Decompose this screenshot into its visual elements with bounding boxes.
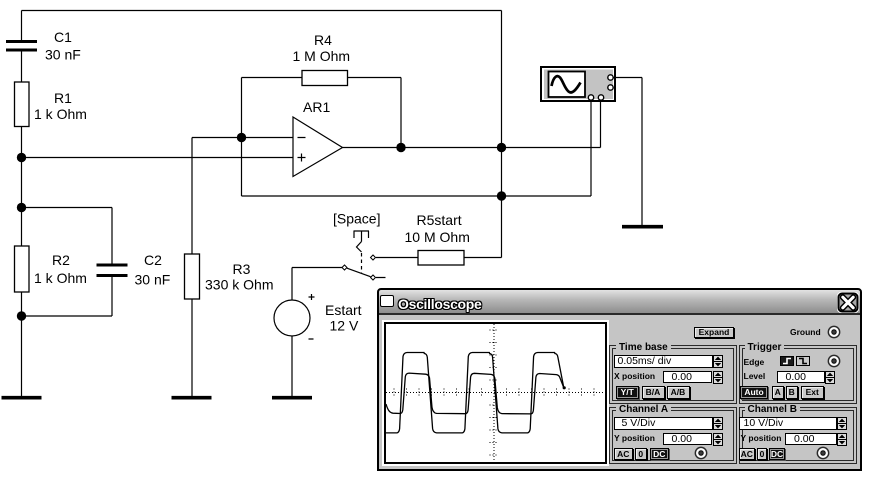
svg-text:R1: R1 [54, 90, 72, 106]
svg-text:AR1: AR1 [303, 99, 330, 115]
svg-text:10 M Ohm: 10 M Ohm [405, 229, 470, 245]
svg-text:1 k Ohm: 1 k Ohm [34, 106, 87, 122]
svg-text:R4: R4 [314, 32, 332, 48]
svg-text:R5start: R5start [417, 212, 462, 228]
svg-text:12 V: 12 V [330, 318, 359, 334]
svg-text:C2: C2 [144, 252, 162, 268]
svg-text:[Space]: [Space] [333, 211, 380, 227]
svg-text:330 k Ohm: 330 k Ohm [205, 277, 273, 293]
svg-text:30 nF: 30 nF [135, 272, 171, 288]
svg-text:C1: C1 [54, 29, 72, 45]
svg-text:1 M Ohm: 1 M Ohm [293, 48, 351, 64]
svg-text:Estart: Estart [325, 302, 362, 318]
svg-text:R2: R2 [52, 252, 70, 268]
svg-text:30 nF: 30 nF [45, 47, 81, 63]
svg-text:R3: R3 [233, 261, 251, 277]
svg-text:1 k Ohm: 1 k Ohm [34, 270, 87, 286]
